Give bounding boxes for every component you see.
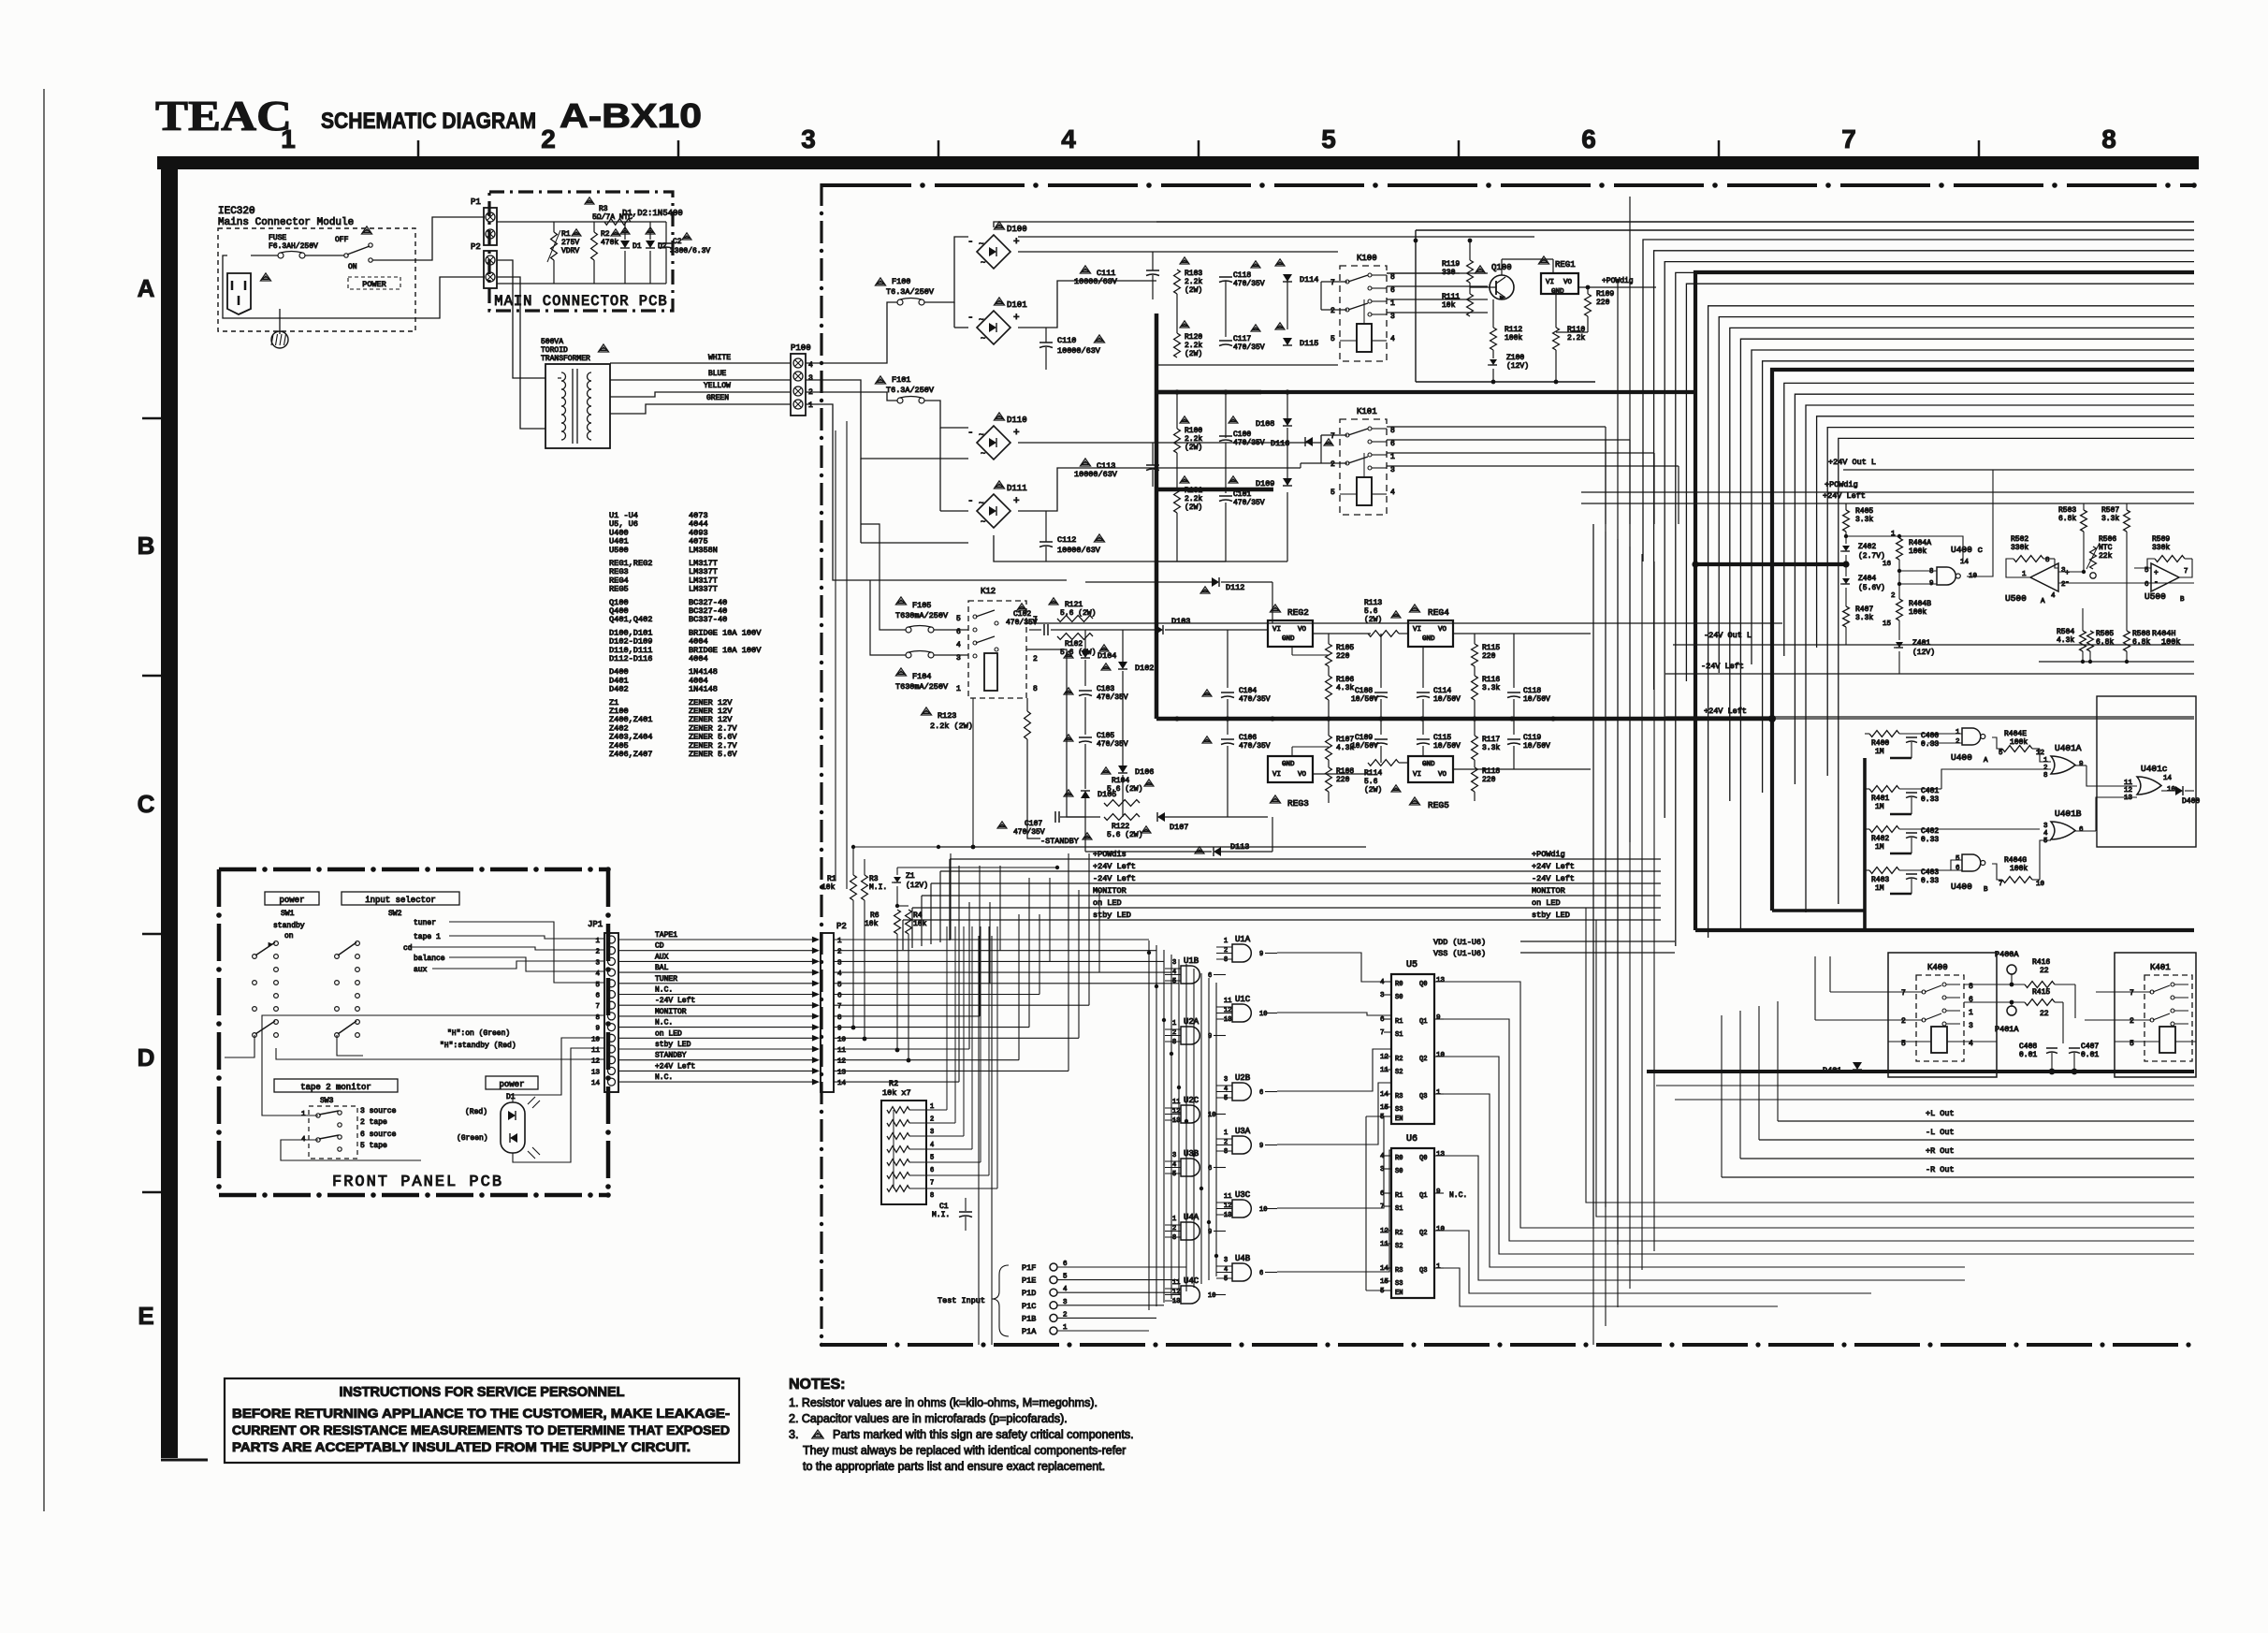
- svg-text:5: 5: [2130, 1040, 2134, 1048]
- svg-text:Q1: Q1: [1419, 1018, 1427, 1026]
- svg-text:9: 9: [1259, 951, 1263, 958]
- svg-text:8: 8: [1390, 427, 1395, 435]
- svg-text:14: 14: [1380, 1091, 1389, 1099]
- svg-text:U4B: U4B: [1235, 1254, 1251, 1263]
- svg-text:220: 220: [1336, 776, 1350, 784]
- svg-text:R106: R106: [1336, 676, 1354, 684]
- wire inlet to fuse: [251, 255, 278, 256]
- svg-text:10000/63V: 10000/63V: [1057, 346, 1101, 356]
- capacitor C100: [1228, 416, 1238, 423]
- resistor R118: [1472, 767, 1478, 792]
- warning triangle switch: [361, 226, 371, 234]
- wire K101 out rows: [1387, 426, 1606, 428]
- wire right verticals lower: [1592, 524, 1594, 1345]
- svg-text:5: 5: [1172, 1171, 1176, 1178]
- svg-text:U400: U400: [1951, 752, 1972, 763]
- svg-text:9: 9: [1259, 1143, 1263, 1150]
- svg-text:0.01: 0.01: [2081, 1051, 2099, 1059]
- svg-text:7: 7: [1901, 989, 1906, 998]
- svg-text:U3C: U3C: [1235, 1190, 1251, 1200]
- svg-text:9: 9: [1436, 1014, 1441, 1022]
- svg-text:9: 9: [1436, 1188, 1441, 1196]
- svg-text:1. Resistor values are in ohms: 1. Resistor values are in ohms (k=kilo-o…: [789, 1396, 1098, 1409]
- svg-text:R3: R3: [1395, 1267, 1403, 1275]
- svg-text:5: 5: [2043, 838, 2048, 845]
- resistor R2 470k: [591, 232, 598, 260]
- svg-text:T630mA/250V: T630mA/250V: [895, 611, 949, 620]
- svg-text:(2.7V): (2.7V): [1858, 552, 1885, 561]
- svg-text:13: 13: [1172, 1298, 1180, 1305]
- wire gate input stubs: [1165, 947, 1232, 1301]
- svg-text:GND: GND: [1551, 288, 1564, 296]
- svg-text:P1: P1: [471, 197, 481, 207]
- svg-text:A: A: [2041, 598, 2045, 605]
- diode D2: [646, 241, 655, 248]
- svg-text:10: 10: [837, 1036, 847, 1043]
- capacitor C111: [1080, 266, 1090, 273]
- wire risers below R2: [978, 936, 980, 1345]
- resistor R103: [1180, 257, 1189, 264]
- POWER label box: [348, 277, 400, 289]
- wire F101 to lower bridges: [924, 401, 968, 428]
- regulator REG2: [1270, 605, 1280, 612]
- svg-text:3 source: 3 source: [360, 1107, 397, 1115]
- svg-text:C114: C114: [1433, 687, 1451, 695]
- gate U1C: [1232, 1004, 1251, 1022]
- wire D112 row: [1085, 581, 1212, 583]
- svg-text:R405: R405: [1855, 507, 1873, 516]
- svg-text:R117: R117: [1482, 736, 1500, 744]
- wire REG1 top: [1501, 259, 1503, 275]
- svg-text:VDD (U1-U6): VDD (U1-U6): [1433, 938, 1486, 947]
- fuse F101: [897, 398, 903, 403]
- diode D104: [1081, 650, 1090, 658]
- svg-text:D110: D110: [1007, 416, 1027, 425]
- svg-text:D106: D106: [1135, 767, 1154, 777]
- svg-text:IEC320: IEC320: [218, 206, 255, 217]
- svg-text:6: 6: [1390, 286, 1395, 295]
- svg-text:1M: 1M: [1875, 843, 1884, 852]
- svg-text:(Red): (Red): [465, 1108, 487, 1116]
- svg-text:on LED: on LED: [1093, 898, 1122, 908]
- resistor R508: [2124, 631, 2130, 651]
- svg-text:VO: VO: [1563, 279, 1573, 286]
- svg-text:BLUE: BLUE: [708, 370, 726, 378]
- svg-text:8: 8: [930, 1192, 934, 1200]
- svg-text:R114: R114: [1364, 769, 1382, 778]
- grid row ticks: [142, 417, 161, 420]
- svg-text:VO: VO: [1438, 771, 1447, 779]
- bold wire out rail y994: [1695, 928, 2194, 932]
- svg-text:aux: aux: [414, 966, 428, 974]
- svg-text:K101: K101: [1357, 407, 1377, 416]
- svg-text:13: 13: [1436, 977, 1446, 984]
- resistor R117: [1472, 736, 1478, 760]
- svg-text:M.I.: M.I.: [869, 883, 887, 892]
- svg-text:6: 6: [595, 993, 600, 1000]
- svg-text:11: 11: [1380, 1067, 1389, 1074]
- resistor R4: [906, 910, 912, 934]
- svg-text:TEAC: TEAC: [155, 92, 292, 139]
- wire U6 EN drop: [1365, 1116, 1367, 1290]
- svg-text:D107: D107: [1170, 823, 1188, 832]
- svg-text:3.3k: 3.3k: [1482, 744, 1500, 752]
- svg-text:REG1: REG1: [1555, 260, 1576, 270]
- svg-text:P1A: P1A: [1022, 1327, 1037, 1336]
- capacitor C408: [2046, 1047, 2057, 1049]
- svg-text:C1: C1: [939, 1203, 949, 1211]
- diode D401: [1853, 1062, 1862, 1070]
- svg-text:TAPE1: TAPE1: [655, 931, 677, 940]
- svg-text:8: 8: [837, 1014, 842, 1022]
- svg-text:~: ~: [981, 258, 985, 268]
- gate U2A: [1181, 1027, 1199, 1044]
- resistor R407: [1843, 606, 1850, 627]
- svg-text:R120: R120: [1185, 333, 1202, 342]
- svg-text:500VA: 500VA: [541, 338, 563, 346]
- svg-text:2.2k: 2.2k: [1185, 278, 1202, 286]
- wire REG1 cluster frame: [1416, 229, 2194, 231]
- instructions box: [225, 1378, 739, 1463]
- wire primary 2: [497, 277, 545, 429]
- svg-text:6: 6: [1390, 440, 1395, 448]
- svg-text:R507: R507: [2101, 506, 2119, 515]
- svg-text:VI: VI: [1413, 771, 1421, 779]
- svg-text:(12V): (12V): [1912, 649, 1935, 657]
- svg-text:330k: 330k: [2152, 544, 2170, 552]
- svg-text:-24V Left: -24V Left: [1532, 874, 1575, 883]
- svg-text:R3: R3: [869, 875, 879, 883]
- svg-text:2: 2: [930, 1116, 934, 1124]
- svg-text:11: 11: [837, 1047, 847, 1055]
- svg-text:3: 3: [1224, 1076, 1228, 1084]
- diode D108: [1283, 418, 1292, 426]
- svg-text:-R Out: -R Out: [1926, 1165, 1955, 1174]
- svg-text:K100: K100: [1357, 254, 1377, 263]
- svg-text:10k: 10k: [865, 920, 879, 928]
- svg-text:CD: CD: [655, 942, 664, 951]
- resistor R102: [1057, 634, 1093, 640]
- svg-text:C118: C118: [1523, 687, 1541, 695]
- wire gate outputs to U5: [1277, 953, 1391, 1272]
- svg-text:2: 2: [541, 124, 556, 153]
- svg-text:MONITOR: MONITOR: [1532, 886, 1565, 896]
- svg-text:YELLOW: YELLOW: [704, 382, 731, 390]
- diode D112: [1212, 577, 1219, 587]
- svg-text:2.2k: 2.2k: [1567, 334, 1585, 343]
- svg-text:6: 6: [1969, 996, 1973, 1004]
- svg-text:5.6 (2W): 5.6 (2W): [1107, 785, 1142, 794]
- svg-text:3: 3: [2043, 823, 2048, 830]
- svg-text:C408: C408: [2019, 1042, 2037, 1051]
- svg-text:12: 12: [1380, 1228, 1388, 1235]
- svg-text:6: 6: [930, 1167, 934, 1174]
- svg-text:4: 4: [595, 970, 600, 978]
- svg-text:4.3k: 4.3k: [2057, 636, 2074, 645]
- svg-text:8: 8: [2045, 557, 2050, 564]
- svg-text:OFF: OFF: [335, 236, 349, 244]
- svg-text:8: 8: [595, 1014, 600, 1022]
- svg-text:6.8k: 6.8k: [2058, 515, 2076, 523]
- svg-text:10: 10: [1259, 1011, 1267, 1018]
- capacitor C2: [660, 242, 673, 244]
- svg-text:1M: 1M: [1875, 884, 1884, 893]
- svg-text:10: 10: [2036, 881, 2045, 888]
- wire P100 pin2 to F101: [806, 392, 897, 401]
- svg-text:U2B: U2B: [1235, 1073, 1251, 1083]
- svg-text:5: 5: [956, 615, 961, 623]
- svg-text:3: 3: [1969, 1022, 1973, 1030]
- svg-text:3: 3: [837, 959, 842, 967]
- IEC320 dashed box: [218, 228, 415, 331]
- svg-text:3300/6.3V: 3300/6.3V: [670, 247, 710, 255]
- svg-text:+: +: [1013, 313, 1020, 324]
- svg-text:4: 4: [1390, 335, 1395, 343]
- svg-text:15: 15: [1380, 1104, 1389, 1112]
- svg-text:BC337-40: BC337-40: [689, 615, 727, 624]
- svg-text:D102: D102: [1135, 663, 1154, 673]
- svg-text:F6.3AH/250V: F6.3AH/250V: [269, 242, 318, 251]
- svg-text:6: 6: [1380, 1190, 1385, 1198]
- svg-text:100k: 100k: [1909, 608, 1926, 617]
- wire r1 cluster drops: [852, 847, 854, 875]
- fuse F105 label: [895, 597, 906, 605]
- svg-text:R108: R108: [1336, 767, 1354, 776]
- svg-text:input selector: input selector: [365, 896, 436, 905]
- svg-text:4: 4: [1380, 1153, 1385, 1160]
- svg-text:1: 1: [1955, 729, 1960, 736]
- svg-text:B: B: [2180, 596, 2185, 604]
- svg-text:11: 11: [1224, 998, 1231, 1005]
- wire D101 +: [1018, 281, 1156, 328]
- svg-text:GND: GND: [1422, 761, 1435, 768]
- svg-text:100k: 100k: [2010, 865, 2028, 873]
- svg-text:standby: standby: [273, 922, 305, 930]
- junction dots upper: [1174, 389, 1179, 394]
- svg-text:1: 1: [1390, 453, 1395, 461]
- svg-text:Z401: Z401: [1912, 639, 1930, 648]
- svg-text:9: 9: [837, 1026, 842, 1033]
- svg-text:-: -: [967, 237, 974, 248]
- svg-text:-: -: [2154, 578, 2159, 587]
- svg-text:balance: balance: [414, 955, 445, 963]
- resistor R122: [1104, 814, 1140, 821]
- svg-text:R0: R0: [1395, 1155, 1403, 1162]
- border frame left bar: [161, 156, 178, 1458]
- main PCB dash-dot border top: [821, 182, 2197, 188]
- diode D1: [620, 241, 630, 248]
- svg-text:10/50V: 10/50V: [1433, 742, 1461, 751]
- wire gate mesh dots: [1147, 951, 1151, 955]
- svg-text:R121: R121: [1065, 601, 1083, 609]
- svg-text:1N4148: 1N4148: [689, 685, 718, 694]
- svg-text:VO: VO: [1298, 771, 1307, 779]
- capacitor C117: [1219, 340, 1232, 342]
- svg-text:(2W): (2W): [1364, 786, 1382, 795]
- svg-text:on: on: [284, 932, 294, 940]
- svg-text:2: 2: [1955, 738, 1960, 746]
- svg-text:(12V): (12V): [906, 882, 928, 890]
- svg-text:F101: F101: [892, 375, 910, 385]
- svg-text:3: 3: [595, 959, 600, 967]
- wire signal bundle horizontals: [903, 859, 1661, 920]
- svg-text:R503: R503: [2058, 506, 2076, 515]
- regulator REG4: [1409, 605, 1419, 612]
- diode D109: [1283, 478, 1292, 486]
- bold bus K400 row: [1647, 1070, 2194, 1073]
- svg-text:N.C.: N.C.: [655, 986, 673, 995]
- svg-text:+L Out: +L Out: [1926, 1109, 1955, 1118]
- wire K12 pin2 right: [1026, 649, 1085, 817]
- svg-text:NOTES:: NOTES:: [789, 1377, 845, 1392]
- svg-text:R3: R3: [599, 205, 608, 213]
- svg-text:U400 c: U400 c: [1951, 545, 1984, 555]
- bridge rectifier D111: [977, 494, 1010, 528]
- svg-text:~: ~: [981, 518, 985, 527]
- svg-text:-24V Out L: -24V Out L: [1704, 631, 1752, 640]
- capacitor C118b: [1507, 692, 1520, 693]
- diode D115: [1283, 338, 1292, 345]
- zener Z404: [1842, 578, 1850, 584]
- svg-text:22: 22: [2040, 967, 2049, 975]
- svg-text:3: 3: [930, 1129, 934, 1136]
- wire bridge rails to K101: [1156, 442, 1321, 444]
- svg-text:6: 6: [1259, 1089, 1263, 1097]
- svg-text:(2W): (2W): [1185, 503, 1202, 512]
- svg-text:SCHEMATIC DIAGRAM: SCHEMATIC DIAGRAM: [321, 109, 536, 134]
- IEC mains inlet J1: [227, 273, 251, 314]
- svg-text:1: 1: [1224, 1130, 1228, 1137]
- svg-text:C108: C108: [1355, 687, 1373, 695]
- svg-text:R404A: R404A: [1909, 539, 1931, 547]
- svg-text:Q2: Q2: [1419, 1230, 1427, 1237]
- svg-text:22k: 22k: [2099, 552, 2113, 561]
- diode D106: [1118, 765, 1127, 773]
- wire F104 K12: [934, 654, 968, 656]
- svg-text:R4: R4: [913, 911, 923, 920]
- svg-text:C407: C407: [2081, 1042, 2099, 1051]
- power label box SW1: [265, 892, 319, 905]
- svg-text:on LED: on LED: [655, 1029, 682, 1038]
- svg-text:GND: GND: [1282, 635, 1295, 643]
- svg-text:C110: C110: [1057, 336, 1076, 345]
- svg-text:3: 3: [1172, 1152, 1176, 1159]
- svg-text:3.3k: 3.3k: [1855, 614, 1873, 622]
- svg-text:R415: R415: [2032, 988, 2050, 997]
- wire switch to P1: [372, 217, 485, 260]
- svg-text:VO: VO: [1438, 626, 1447, 634]
- svg-text:P1D: P1D: [1022, 1289, 1036, 1298]
- svg-text:D402: D402: [609, 685, 629, 694]
- svg-text:R505: R505: [2096, 630, 2114, 638]
- svg-text:LM358N: LM358N: [689, 546, 718, 555]
- svg-text:1: 1: [281, 124, 296, 153]
- svg-text:7: 7: [1380, 1029, 1385, 1037]
- svg-text:14: 14: [591, 1080, 601, 1087]
- diode D102: [1118, 662, 1127, 669]
- svg-text:3: 3: [1390, 466, 1395, 474]
- svg-text:FRONT PANEL PCB: FRONT PANEL PCB: [332, 1174, 503, 1191]
- svg-text:8: 8: [1224, 956, 1228, 964]
- svg-text:R400: R400: [1871, 739, 1889, 748]
- svg-text:D108: D108: [1256, 419, 1274, 429]
- capacitor C118: [1219, 276, 1232, 278]
- capacitor C112: [1039, 541, 1053, 543]
- svg-text:R2: R2: [1395, 1230, 1403, 1237]
- svg-text:1: 1: [1891, 531, 1896, 538]
- svg-text:D104: D104: [1098, 651, 1116, 661]
- svg-text:470/35V: 470/35V: [1097, 693, 1128, 702]
- capacitor C110: [1039, 342, 1053, 343]
- bold segment D109 row: [1155, 488, 1273, 492]
- U401c box: [2097, 696, 2196, 847]
- svg-text:10: 10: [1436, 1226, 1446, 1233]
- svg-text:LM337T: LM337T: [689, 585, 718, 594]
- svg-text:D: D: [138, 1043, 155, 1072]
- svg-text:7: 7: [1330, 279, 1335, 287]
- capacitor C104: [1221, 692, 1234, 693]
- grid column ticks: [417, 140, 420, 156]
- warning triangle inlet: [260, 273, 270, 281]
- svg-text:R105: R105: [1336, 644, 1354, 652]
- capacitor C401: [1906, 792, 1917, 794]
- svg-text:1: 1: [301, 1111, 306, 1118]
- input selector label box: [342, 892, 459, 905]
- diode D113: [1214, 847, 1221, 856]
- resistor R123: [921, 707, 931, 715]
- svg-text:2: 2: [1330, 307, 1335, 315]
- diode D105: [1081, 791, 1090, 798]
- resistor R405: [1843, 510, 1850, 532]
- svg-text:~: ~: [979, 315, 983, 325]
- svg-text:10k x7: 10k x7: [882, 1088, 911, 1098]
- svg-text:R509: R509: [2152, 535, 2170, 544]
- svg-text:R401: R401: [1871, 795, 1889, 803]
- svg-text:U401A: U401A: [2055, 743, 2082, 753]
- svg-text:100k: 100k: [1505, 334, 1522, 343]
- wire LED elbows: [1586, 908, 2194, 1203]
- bold wire riser x1894: [1772, 370, 2194, 911]
- svg-text:REG2: REG2: [1287, 607, 1309, 618]
- svg-text:2: 2: [837, 949, 842, 956]
- svg-text:T6.3A/250V: T6.3A/250V: [886, 287, 935, 297]
- svg-text:C107: C107: [1025, 820, 1042, 828]
- svg-text:R508: R508: [2132, 630, 2150, 638]
- svg-text:T6.3A/250V: T6.3A/250V: [886, 386, 935, 395]
- svg-text:12: 12: [1380, 1054, 1388, 1061]
- svg-text:R1: R1: [827, 875, 836, 883]
- svg-text:R1: R1: [1395, 1018, 1403, 1026]
- svg-text:7: 7: [1380, 1203, 1385, 1211]
- svg-text:+: +: [2154, 569, 2159, 577]
- svg-text:REG4: REG4: [1428, 607, 1449, 618]
- svg-text:-: -: [967, 496, 974, 507]
- svg-text:R115: R115: [1482, 644, 1500, 652]
- wire U500A loop: [2006, 559, 2030, 577]
- svg-text:10k: 10k: [913, 920, 927, 928]
- svg-text:1M: 1M: [1875, 748, 1884, 756]
- wire r2 outputs: [926, 926, 1194, 1188]
- svg-text:C: C: [138, 790, 155, 818]
- svg-text:9: 9: [595, 1026, 600, 1033]
- svg-text:Z406,Z407: Z406,Z407: [609, 750, 652, 759]
- diode D114: [1283, 274, 1292, 282]
- svg-text:D111: D111: [1007, 484, 1027, 493]
- svg-text:16: 16: [1883, 561, 1892, 568]
- svg-text:tape 1: tape 1: [414, 933, 441, 941]
- transistor Q100: [1490, 275, 1514, 299]
- regulator REG3: [1268, 756, 1313, 782]
